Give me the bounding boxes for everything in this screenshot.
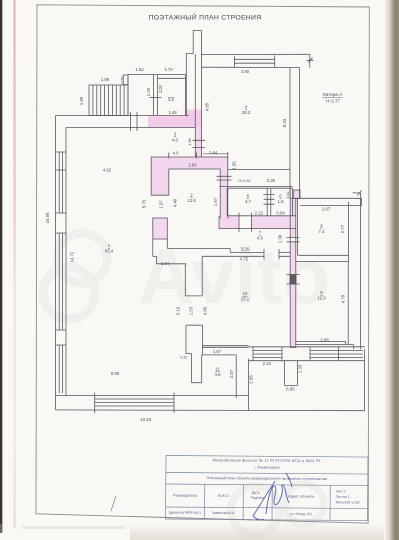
svg-text:23.1: 23.1 bbox=[241, 297, 250, 302]
svg-text:14.72: 14.72 bbox=[70, 251, 75, 262]
svg-text:2.98: 2.98 bbox=[248, 375, 253, 384]
svg-text:0.56: 0.56 bbox=[121, 77, 125, 84]
svg-text:7.4: 7.4 bbox=[319, 229, 326, 234]
svg-text:Межрайонный филиал № 11 РГУ: Межрайонный филиал № 11 РГУП БТИ МСА и Ж… bbox=[213, 457, 322, 463]
highlighted wall: central vertical bbox=[290, 200, 296, 348]
svg-text:1.8: 1.8 bbox=[278, 199, 285, 204]
room 8 side walls bbox=[298, 198, 349, 261]
svg-text:4.85: 4.85 bbox=[203, 306, 208, 315]
svg-text:Листов 1: Листов 1 bbox=[336, 495, 350, 499]
svg-text:Подпись: Подпись bbox=[250, 496, 265, 500]
dimension and room labels bbox=[45, 67, 346, 422]
svg-text:16.95: 16.95 bbox=[45, 212, 50, 223]
bottom shade bbox=[130, 523, 384, 540]
svg-text:Avito: Avito bbox=[138, 232, 330, 320]
svg-text:6.80: 6.80 bbox=[286, 387, 295, 392]
svg-text:2.77: 2.77 bbox=[340, 224, 345, 233]
svg-text:Литера А: Литера А bbox=[323, 92, 344, 97]
svg-text:5.19: 5.19 bbox=[176, 306, 181, 315]
terrace windows bbox=[249, 347, 365, 361]
highlighted wall: entry band fill bbox=[148, 116, 202, 127]
svg-text:4.0: 4.0 bbox=[257, 236, 264, 241]
right wall upper double bbox=[290, 68, 300, 199]
chimney bbox=[193, 31, 201, 55]
terrace top band bbox=[249, 345, 365, 350]
svg-text:10.48: 10.48 bbox=[140, 417, 151, 422]
highlighted wall: rooms 5-6 bottom band bbox=[219, 216, 296, 229]
window in top wall bbox=[234, 55, 274, 67]
room1-room7 wall lower line bbox=[202, 255, 290, 257]
svg-text:8.90: 8.90 bbox=[111, 371, 120, 376]
divider wall vestibule/room3 bbox=[153, 75, 157, 116]
svg-text:2.10: 2.10 bbox=[263, 361, 272, 366]
room6 right wall bbox=[292, 188, 294, 216]
watermark ring at stamp right bbox=[284, 484, 324, 524]
watermark Avito circles bbox=[43, 233, 324, 534]
svg-text:2.29: 2.29 bbox=[146, 87, 151, 96]
svg-text:1.44: 1.44 bbox=[209, 150, 218, 155]
door gap in band bbox=[239, 215, 252, 229]
corridor niche bbox=[185, 256, 202, 296]
terrace right wall bbox=[364, 349, 366, 410]
svg-text:2.07: 2.07 bbox=[229, 369, 234, 378]
svg-text:2.02: 2.02 bbox=[158, 84, 163, 93]
svg-text:Лист 1: Лист 1 bbox=[336, 489, 346, 493]
svg-text:Директор МРФ №11: Директор МРФ №11 bbox=[169, 511, 202, 515]
svg-text:12.8: 12.8 bbox=[187, 198, 196, 203]
left outer wall bbox=[56, 116, 67, 410]
svg-text:4.78: 4.78 bbox=[341, 294, 346, 303]
room 9 right wall bbox=[347, 262, 349, 345]
svg-text:3.26: 3.26 bbox=[241, 247, 250, 252]
signature bbox=[253, 473, 292, 520]
svg-text:г. Альметьевск: г. Альметьевск bbox=[254, 465, 280, 469]
door ticks in band bbox=[131, 112, 138, 131]
top wall outer bbox=[202, 53, 310, 55]
door ticks band bbox=[239, 213, 252, 233]
svg-text:4.62: 4.62 bbox=[103, 168, 112, 173]
divider rooms 5-6 bbox=[267, 188, 271, 216]
watermark ring upper bbox=[57, 233, 107, 283]
tick divider bbox=[150, 96, 162, 98]
svg-text:1.52: 1.52 bbox=[135, 67, 144, 72]
main band below staircase bbox=[56, 116, 196, 128]
svg-text:10: 10 bbox=[243, 291, 248, 296]
vestibule and room 3 box bbox=[128, 75, 185, 116]
highlighted wall: chunk above band bbox=[185, 110, 201, 117]
svg-text:2.67: 2.67 bbox=[322, 207, 331, 212]
door ticks room7 bbox=[264, 249, 279, 260]
svg-text:1.62: 1.62 bbox=[286, 192, 290, 199]
svg-text:1.57: 1.57 bbox=[159, 200, 164, 209]
svg-text:3.0: 3.0 bbox=[168, 97, 175, 102]
svg-text:2.68: 2.68 bbox=[320, 337, 329, 342]
ticks on pi right leg bbox=[217, 176, 232, 180]
svg-text:3.36: 3.36 bbox=[267, 178, 276, 183]
PLAN bbox=[56, 31, 365, 413]
svg-text:4.8: 4.8 bbox=[215, 372, 222, 377]
outer wall corner left of chimney bbox=[186, 54, 193, 116]
svg-text:1.53: 1.53 bbox=[188, 306, 193, 315]
svg-text:Дата: Дата bbox=[252, 491, 261, 495]
svg-text:Н=2.77: Н=2.77 bbox=[326, 99, 340, 104]
top wall inner bbox=[202, 66, 300, 68]
rooms 10-9 bottom wall bbox=[296, 342, 346, 345]
svg-text:Замакова И.А.: Замакова И.А. bbox=[212, 511, 236, 515]
bottom wall window bbox=[95, 393, 174, 414]
terrace left wall bbox=[248, 359, 250, 411]
svg-text:Масштаб 1:100: Масштаб 1:100 bbox=[336, 500, 360, 504]
staircase bbox=[89, 85, 128, 116]
cross wall with 0.32 stub bbox=[186, 325, 203, 383]
svg-text:Адрес объекта: Адрес объекта bbox=[288, 494, 315, 498]
stub 6.80 bbox=[284, 361, 297, 386]
svg-text:1.84: 1.84 bbox=[161, 261, 170, 266]
right outer wall lower bbox=[353, 191, 362, 350]
svg-text:28.3: 28.3 bbox=[242, 110, 251, 115]
svg-text:1.50: 1.50 bbox=[232, 161, 237, 170]
svg-text:4.80: 4.80 bbox=[241, 69, 250, 74]
room 11 corridor top wall bbox=[203, 346, 249, 348]
room 8 top wall bbox=[290, 198, 362, 205]
svg-text:1.33: 1.33 bbox=[297, 364, 302, 373]
room 8 bottom band bbox=[296, 255, 349, 261]
ticks divider 5-6 bbox=[264, 194, 275, 204]
room5 left wall bbox=[226, 188, 228, 216]
dim line above pi bar bbox=[203, 153, 228, 155]
highlighted wall: room1 right bar bbox=[153, 218, 168, 239]
inner line room3 bbox=[158, 77, 186, 79]
bottom wall band bbox=[56, 396, 365, 411]
room1 right bar outline bbox=[153, 218, 168, 239]
highlighted wall: duct right of room6 bbox=[294, 190, 300, 199]
svg-text:Ф.И.О.: Ф.И.О. bbox=[218, 494, 230, 498]
top-right end tick bbox=[307, 55, 314, 68]
svg-text:Руководитель: Руководитель bbox=[173, 494, 198, 498]
pen tick at frame left bbox=[111, 496, 116, 511]
svg-text:4.0: 4.0 bbox=[173, 151, 180, 156]
svg-text:1.48: 1.48 bbox=[168, 110, 177, 115]
room4 left wall double bbox=[195, 54, 201, 157]
highlighted wall: connector room4 left bbox=[196, 128, 202, 158]
svg-text:4.40: 4.40 bbox=[173, 198, 178, 207]
svg-text:ул. Белау 131: ул. Белау 131 bbox=[290, 512, 312, 516]
niche 0.56 bbox=[123, 75, 128, 85]
svg-text:1.67: 1.67 bbox=[213, 349, 222, 354]
svg-text:1.99: 1.99 bbox=[79, 96, 84, 105]
svg-text:83.4: 83.4 bbox=[105, 249, 114, 254]
thin line right of pi bar bbox=[228, 169, 290, 171]
svg-text:1.57: 1.57 bbox=[213, 197, 218, 206]
watermark ring lower bbox=[43, 267, 95, 319]
highlighted wall: pi right leg bbox=[220, 169, 228, 219]
left wall window ticks bbox=[56, 152, 67, 345]
room1-room7 wall upper line bbox=[167, 248, 290, 252]
svg-text:12.9: 12.9 bbox=[317, 296, 326, 301]
central wall outline bbox=[290, 189, 296, 348]
watermark ring at stamp bbox=[231, 486, 279, 534]
svg-text:4.85: 4.85 bbox=[205, 102, 210, 111]
svg-text:3.7: 3.7 bbox=[245, 199, 252, 204]
table outline bbox=[166, 456, 368, 521]
svg-text:4.75: 4.75 bbox=[240, 257, 249, 262]
pi shape outline bbox=[151, 157, 228, 219]
svg-text:8.33: 8.33 bbox=[282, 118, 287, 127]
svg-text:1.99: 1.99 bbox=[101, 77, 110, 82]
corridor walls left bbox=[153, 239, 187, 264]
svg-text:0.94: 0.94 bbox=[276, 211, 285, 216]
central wall ticks bbox=[287, 238, 300, 285]
duct outline bbox=[294, 190, 300, 199]
ticks on pi bar bbox=[169, 152, 228, 159]
room 11 box bbox=[202, 355, 237, 398]
right shadow strip bbox=[385, 0, 399, 540]
svg-text:4.0: 4.0 bbox=[172, 138, 179, 143]
svg-text:Н=2.52: Н=2.52 bbox=[238, 179, 250, 183]
column lines bbox=[205, 484, 331, 520]
svg-text:5.75: 5.75 bbox=[142, 199, 147, 208]
door ticks room4 left wall bbox=[193, 140, 206, 147]
highlighted wall: pi left leg bbox=[151, 169, 169, 195]
svg-text:1.70: 1.70 bbox=[164, 67, 173, 72]
rooms 5-6 top wall bbox=[220, 187, 293, 189]
stamp table bbox=[166, 456, 368, 521]
left wall window lines bbox=[59, 152, 62, 393]
svg-text:0.32: 0.32 bbox=[180, 356, 187, 360]
rooms 5-6 bottom band outline bbox=[219, 216, 296, 229]
highlighted wall: pi top bar bbox=[151, 157, 228, 169]
left dark scan edge bbox=[0, 0, 2, 531]
pink vertical margin line bbox=[13, 0, 15, 528]
svg-text:2.22: 2.22 bbox=[255, 211, 264, 216]
svg-text:11: 11 bbox=[215, 367, 220, 372]
left edge fade bbox=[0, 524, 2, 533]
svg-text:ПОЭТАЖНЫЙ ПЛАН СТРОЕНИЯ: ПОЭТАЖНЫЙ ПЛАН СТРОЕНИЯ bbox=[149, 13, 262, 22]
row lines bbox=[166, 472, 368, 508]
svg-text:2.83: 2.83 bbox=[188, 163, 197, 168]
svg-text:1.38: 1.38 bbox=[277, 234, 282, 243]
svg-text:1.98: 1.98 bbox=[188, 139, 192, 146]
